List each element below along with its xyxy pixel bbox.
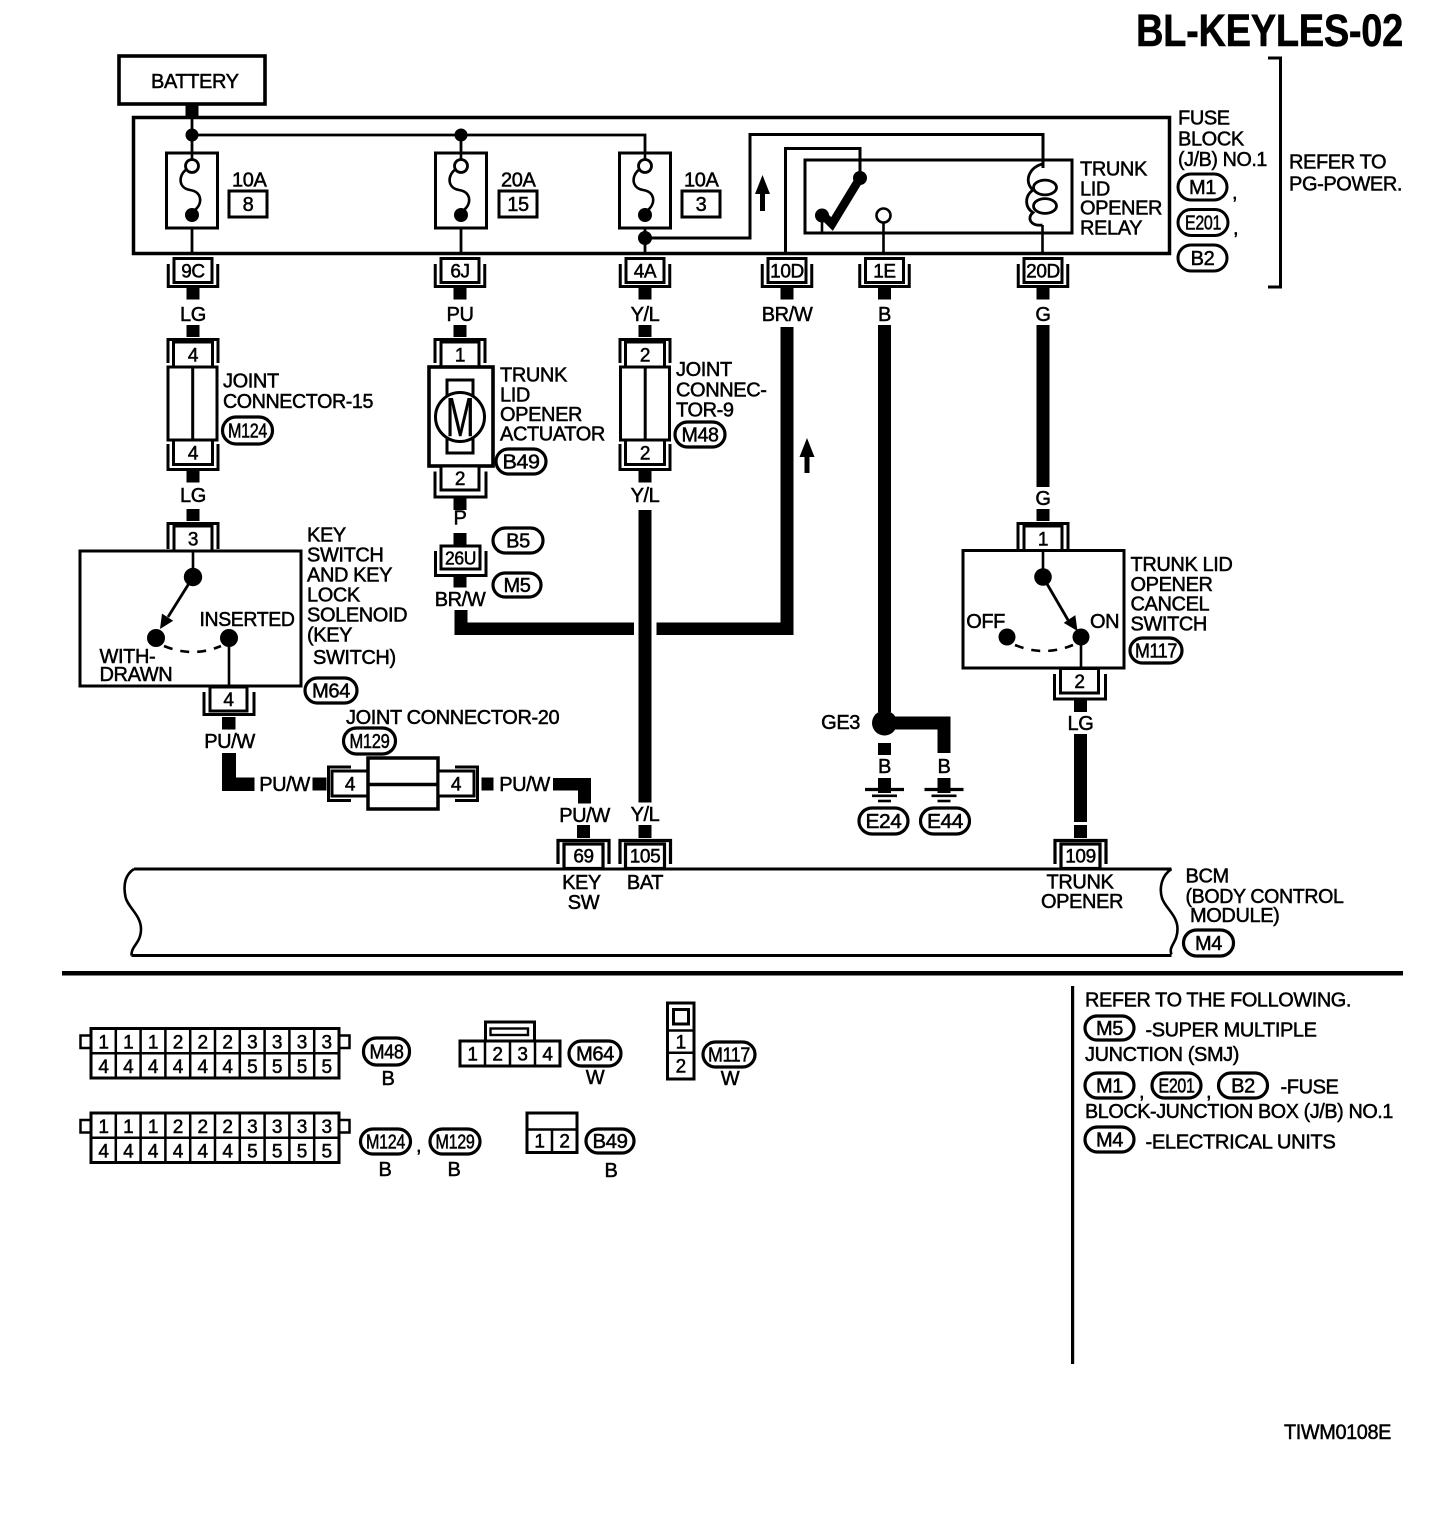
wire stub below 9C bbox=[187, 288, 200, 300]
svg-text:10A: 10A bbox=[232, 170, 267, 192]
connector M4 oval bbox=[1184, 930, 1234, 956]
wire dashed segment below GE3 bbox=[878, 743, 891, 755]
connector 109 TRUNK OPENER on BCM bbox=[1055, 841, 1106, 869]
svg-text:M124: M124 bbox=[366, 1132, 405, 1154]
svg-text:BR/W: BR/W bbox=[762, 304, 813, 326]
connector M1 oval bbox=[1178, 174, 1237, 204]
svg-text:ACTUATOR: ACTUATOR bbox=[500, 424, 605, 446]
svg-text:1: 1 bbox=[676, 1033, 686, 1054]
connector M117 oval bbox=[1130, 638, 1182, 663]
relay switch pivot node bbox=[815, 209, 829, 223]
wire stub above BCM pin 69 bbox=[577, 825, 590, 838]
key switch WITHDRAWN contact bbox=[147, 629, 165, 647]
wire stub below 10D bbox=[781, 288, 794, 300]
svg-text:KEY: KEY bbox=[562, 872, 601, 894]
svg-text:4: 4 bbox=[188, 444, 199, 465]
connector pin 2 of actuator bbox=[435, 466, 486, 497]
wire PU/W elbow to BCM 69 bbox=[553, 778, 591, 804]
separator line bbox=[62, 971, 1403, 976]
svg-text:CANCEL: CANCEL bbox=[1131, 594, 1210, 616]
joint connector-9 (M48) bbox=[620, 340, 670, 470]
connector M5 oval bbox=[1085, 1016, 1134, 1040]
svg-text:8: 8 bbox=[243, 194, 254, 216]
connector B49 oval (legend) bbox=[586, 1129, 634, 1153]
connector E24 oval bbox=[859, 808, 908, 834]
svg-text:FUSE: FUSE bbox=[1178, 108, 1230, 130]
svg-text:E201: E201 bbox=[1185, 213, 1221, 235]
svg-text:SWITCH: SWITCH bbox=[1131, 614, 1207, 636]
svg-text:20D: 20D bbox=[1026, 262, 1060, 283]
wire BR/W vertical from 10D bbox=[781, 327, 794, 635]
joint connector-15 (M124) bbox=[168, 340, 218, 470]
svg-text:W: W bbox=[586, 1067, 605, 1089]
label refer to pg-power bbox=[1289, 152, 1402, 196]
svg-text:TRUNK: TRUNK bbox=[500, 365, 568, 387]
svg-text:(KEY: (KEY bbox=[307, 625, 352, 647]
wire stub below 4A bbox=[639, 288, 652, 300]
wire B from 1E to ground GE3 bbox=[878, 325, 891, 712]
svg-text:BLOCK-JUNCTION BOX (J/B) NO.1: BLOCK-JUNCTION BOX (J/B) NO.1 bbox=[1085, 1101, 1393, 1123]
svg-text:Y/L: Y/L bbox=[631, 304, 660, 326]
wire bus to fuse 2 bbox=[460, 135, 463, 153]
connector 20D on fuse block bbox=[1018, 259, 1068, 287]
svg-text:OPENER: OPENER bbox=[1080, 198, 1162, 220]
svg-text:3: 3 bbox=[696, 194, 707, 216]
connector E44 oval bbox=[921, 808, 970, 834]
svg-text:M5: M5 bbox=[504, 575, 531, 597]
svg-text:SWITCH): SWITCH) bbox=[313, 647, 396, 669]
svg-text:JUNCTION (SMJ): JUNCTION (SMJ) bbox=[1085, 1044, 1239, 1066]
connector pin diagram M64 (4 pin) bbox=[460, 1022, 560, 1066]
key switch dashed arc bbox=[164, 646, 221, 652]
wire stub above ground E44 bbox=[938, 778, 951, 793]
svg-text:TOR-9: TOR-9 bbox=[676, 400, 734, 422]
motor M circle bbox=[436, 386, 485, 448]
wire stub below joint connector-15 bbox=[187, 471, 200, 483]
cancel switch dashed arc bbox=[1015, 645, 1073, 651]
svg-text:E24: E24 bbox=[866, 811, 902, 833]
joint connector-20 (M129) bbox=[329, 758, 478, 809]
label key switch and key lock solenoid bbox=[307, 525, 407, 670]
svg-text:10A: 10A bbox=[684, 170, 719, 192]
svg-text:1: 1 bbox=[455, 346, 465, 367]
wire stub above BCM pin 109 bbox=[1074, 825, 1087, 838]
arrow up near fuse 3 bbox=[755, 175, 770, 211]
label trunk lid opener cancel switch bbox=[1131, 554, 1233, 636]
svg-text:RELAY: RELAY bbox=[1080, 218, 1142, 240]
key switch and key lock solenoid box M64 bbox=[80, 551, 301, 686]
connector 26U SMJ bbox=[436, 546, 487, 576]
wire stub below 26U bbox=[454, 576, 467, 588]
wire G from 20D to cancel switch bbox=[1037, 325, 1050, 487]
connector M129 oval bbox=[344, 728, 396, 754]
svg-text:JOINT: JOINT bbox=[223, 371, 279, 393]
connector pin diagram B49 (2 pin) bbox=[527, 1113, 577, 1153]
svg-text:,: , bbox=[1139, 1081, 1144, 1103]
connector M64 oval bbox=[305, 678, 357, 703]
connector pin diagram M48 (20 pin) bbox=[81, 1029, 350, 1079]
connector B2 oval bbox=[1178, 245, 1227, 271]
label trunk lid opener actuator bbox=[500, 365, 605, 446]
svg-text:LG: LG bbox=[1068, 713, 1094, 735]
wire stub above joint connector-9 bbox=[639, 325, 652, 337]
cancel switch OFF contact bbox=[999, 629, 1016, 646]
svg-text:6J: 6J bbox=[450, 262, 469, 283]
connector pin 4 of key switch bbox=[204, 687, 254, 715]
fuse 10A #8 bbox=[167, 153, 218, 228]
svg-text:B5: B5 bbox=[506, 531, 530, 553]
svg-text:9C: 9C bbox=[181, 262, 205, 283]
bracket refer to pg-power bbox=[1268, 58, 1281, 287]
connector M48 oval (legend) bbox=[364, 1038, 410, 1065]
svg-text:M48: M48 bbox=[370, 1042, 404, 1064]
wire relay coil to 20D bbox=[1041, 225, 1044, 252]
relay switch arm bbox=[821, 178, 861, 224]
wire stub above 26U bbox=[454, 533, 467, 546]
svg-text:M64: M64 bbox=[312, 681, 350, 703]
label 10A / 8 for fuse 1 bbox=[229, 170, 267, 218]
label trunk lid opener relay bbox=[1080, 159, 1162, 240]
wire stub below key switch pin 4 bbox=[222, 717, 236, 730]
svg-text:M129: M129 bbox=[350, 731, 390, 753]
wire stub above actuator pin 1 bbox=[454, 325, 467, 337]
label TRUNK OPENER bbox=[1041, 872, 1123, 914]
wire cancel switch input bbox=[1042, 551, 1045, 577]
svg-text:15: 15 bbox=[507, 194, 529, 216]
svg-text:P: P bbox=[454, 508, 467, 530]
connector 4A on fuse block bbox=[620, 259, 670, 287]
connector M124 oval (legend) bbox=[361, 1129, 422, 1157]
svg-text:E44: E44 bbox=[927, 811, 963, 833]
connector 6J on fuse block bbox=[435, 259, 485, 287]
connector 10D on fuse block bbox=[762, 259, 812, 287]
svg-text:BATTERY: BATTERY bbox=[151, 71, 239, 93]
cancel switch common node bbox=[1034, 568, 1052, 586]
svg-text:M117: M117 bbox=[1135, 641, 1177, 663]
wire 10D to relay switch bbox=[786, 149, 861, 253]
svg-text:PG-POWER.: PG-POWER. bbox=[1289, 174, 1402, 196]
svg-text:2: 2 bbox=[640, 346, 650, 367]
vertical divider line bottom right column bbox=[1071, 986, 1074, 1364]
svg-text:B: B bbox=[605, 1160, 618, 1182]
connector pin 1 of cancel switch bbox=[1018, 524, 1068, 552]
wire stub below actuator pin 2 bbox=[454, 498, 467, 510]
node GE3 ground junction bbox=[872, 711, 897, 736]
svg-text:4: 4 bbox=[542, 1045, 553, 1066]
wire stub below 20D bbox=[1037, 288, 1050, 300]
svg-text:PU/W: PU/W bbox=[204, 731, 255, 753]
fuse 20A #15 bbox=[436, 153, 487, 228]
wire stub below 1E bbox=[878, 288, 891, 300]
svg-text:CONNEC-: CONNEC- bbox=[676, 380, 767, 402]
svg-text:INSERTED: INSERTED bbox=[200, 609, 295, 631]
svg-text:G: G bbox=[1035, 304, 1050, 326]
svg-text:Y/L: Y/L bbox=[631, 485, 660, 507]
wire stub out of joint connector-20 bbox=[482, 778, 494, 791]
svg-text:M64: M64 bbox=[576, 1044, 614, 1066]
relay switch moving contact node bbox=[853, 171, 867, 185]
svg-text:BAT: BAT bbox=[627, 872, 663, 894]
connector M4 oval (legend) bbox=[1085, 1127, 1134, 1152]
svg-text:B: B bbox=[448, 1159, 461, 1181]
svg-text:20A: 20A bbox=[501, 170, 536, 192]
svg-text:-FUSE: -FUSE bbox=[1281, 1077, 1339, 1099]
svg-text:69: 69 bbox=[573, 847, 593, 868]
svg-text:105: 105 bbox=[630, 847, 661, 868]
wire PU/W elbow from key switch bbox=[222, 753, 255, 791]
svg-text:REFER TO THE FOLLOWING.: REFER TO THE FOLLOWING. bbox=[1085, 990, 1351, 1012]
svg-text:SWITCH: SWITCH bbox=[307, 545, 383, 567]
svg-text:BL-KEYLES-02: BL-KEYLES-02 bbox=[1136, 5, 1403, 56]
connector M1 oval (legend) bbox=[1085, 1073, 1144, 1103]
svg-text:M4: M4 bbox=[1096, 1130, 1123, 1152]
svg-text:M117: M117 bbox=[708, 1045, 750, 1067]
svg-text:109: 109 bbox=[1065, 847, 1096, 868]
svg-text:CONNECTOR-15: CONNECTOR-15 bbox=[223, 391, 373, 413]
key switch arm with arrow bbox=[160, 577, 193, 629]
connector M5 oval bbox=[493, 573, 541, 597]
battery bbox=[119, 56, 265, 104]
svg-text:M5: M5 bbox=[1096, 1018, 1123, 1040]
svg-text:M48: M48 bbox=[682, 425, 719, 447]
wire GE3 right branch bbox=[894, 717, 951, 754]
svg-text:4: 4 bbox=[345, 775, 356, 796]
node fuse 2 junction bbox=[455, 129, 468, 142]
arrow up on BR/W wire bbox=[800, 438, 815, 473]
svg-text:W: W bbox=[721, 1068, 740, 1090]
svg-text:TRUNK: TRUNK bbox=[1080, 159, 1148, 181]
svg-text:DRAWN: DRAWN bbox=[100, 664, 173, 686]
svg-text:1: 1 bbox=[467, 1045, 477, 1066]
wire Y/L vertical to BCM 105 bbox=[639, 510, 652, 803]
svg-text:26U: 26U bbox=[445, 549, 476, 569]
svg-text:BCM: BCM bbox=[1186, 866, 1229, 888]
svg-text:TRUNK LID: TRUNK LID bbox=[1131, 554, 1233, 576]
relay fixed contact bbox=[877, 209, 891, 223]
svg-text:AND KEY: AND KEY bbox=[307, 565, 392, 587]
connector M64 oval (legend) bbox=[569, 1041, 621, 1066]
wire stub above BCM pin 105 bbox=[639, 825, 652, 838]
svg-text:B: B bbox=[938, 756, 951, 778]
svg-text:2: 2 bbox=[1074, 672, 1084, 693]
connector B49 oval bbox=[496, 449, 546, 474]
svg-text:,: , bbox=[1232, 182, 1237, 204]
svg-text:GE3: GE3 bbox=[821, 712, 860, 734]
connector pin 1 of actuator bbox=[435, 340, 485, 368]
svg-text:Y/L: Y/L bbox=[631, 804, 660, 826]
svg-text:E201: E201 bbox=[1159, 1076, 1195, 1098]
svg-text:4: 4 bbox=[188, 346, 199, 367]
key switch common node bbox=[184, 568, 202, 586]
label JOINT CONNECTOR-15 bbox=[223, 371, 373, 414]
svg-text:M4: M4 bbox=[1195, 933, 1222, 955]
svg-text:-SUPER MULTIPLE: -SUPER MULTIPLE bbox=[1146, 1020, 1317, 1042]
motor terminal rectangle bbox=[447, 380, 473, 453]
svg-text:MODULE): MODULE) bbox=[1190, 905, 1279, 927]
svg-text:2: 2 bbox=[559, 1132, 569, 1153]
svg-text:SW: SW bbox=[568, 892, 600, 914]
ground symbol E24 bbox=[865, 790, 904, 802]
connector pin diagram M117 (2 pin) bbox=[668, 1003, 695, 1079]
svg-text:4: 4 bbox=[451, 775, 462, 796]
svg-text:JOINT: JOINT bbox=[676, 359, 732, 381]
svg-text:BLOCK: BLOCK bbox=[1178, 129, 1245, 151]
svg-text:3: 3 bbox=[188, 530, 198, 551]
svg-text:M: M bbox=[446, 386, 475, 448]
connector 69 KEY SW on BCM bbox=[558, 841, 609, 869]
svg-text:2: 2 bbox=[492, 1045, 502, 1066]
svg-text:LG: LG bbox=[180, 304, 206, 326]
wire key switch input bbox=[192, 551, 195, 574]
svg-text:BR/W: BR/W bbox=[435, 589, 486, 611]
connector B2 oval (legend) bbox=[1219, 1073, 1268, 1098]
label 20A / 15 for fuse 2 bbox=[499, 170, 537, 218]
connector 105 BAT on BCM bbox=[620, 841, 671, 869]
wire fuse 3 junction to relay coil bbox=[645, 135, 1043, 239]
wire stub above joint connector-15 bbox=[187, 325, 200, 337]
svg-text:2: 2 bbox=[455, 469, 465, 490]
svg-text:,: , bbox=[416, 1135, 421, 1157]
cancel switch arm with arrow bbox=[1043, 577, 1078, 631]
cancel switch ON contact bbox=[1073, 629, 1090, 646]
svg-text:M124: M124 bbox=[228, 421, 267, 443]
wire fuse 1 to 9C bbox=[191, 228, 194, 252]
svg-text:4: 4 bbox=[223, 690, 234, 711]
label fuse block (J/B) no.1 bbox=[1178, 108, 1267, 172]
connector B5 oval bbox=[493, 528, 543, 553]
svg-text:SOLENOID: SOLENOID bbox=[307, 605, 407, 627]
wire stub above cancel switch pin 1 bbox=[1037, 509, 1050, 521]
wire stub below 6J bbox=[454, 288, 467, 300]
connector 1E on fuse block bbox=[860, 259, 910, 287]
wire ON contact to pin 2 bbox=[1080, 644, 1083, 668]
svg-text:B2: B2 bbox=[1231, 1076, 1255, 1098]
svg-text:JOINT CONNECTOR-20: JOINT CONNECTOR-20 bbox=[346, 707, 559, 729]
wire fuse 2 to 6J bbox=[460, 228, 463, 252]
wire fuse 3 to 4A bbox=[644, 228, 647, 252]
wire stub into joint connector-20 bbox=[313, 778, 327, 791]
svg-text:B2: B2 bbox=[1191, 248, 1215, 270]
connector pin 2 of cancel switch bbox=[1055, 669, 1106, 700]
svg-text:(J/B) NO.1: (J/B) NO.1 bbox=[1178, 149, 1267, 171]
svg-text:PU/W: PU/W bbox=[499, 774, 550, 796]
connector M129 oval (legend) bbox=[430, 1129, 480, 1154]
wire relay fixed contact to 1E bbox=[882, 223, 885, 253]
trunk lid opener relay box bbox=[805, 160, 1072, 233]
svg-text:B: B bbox=[878, 756, 891, 778]
svg-text:2: 2 bbox=[640, 444, 650, 465]
label BCM (BODY CONTROL MODULE) bbox=[1186, 866, 1344, 928]
svg-text:10D: 10D bbox=[770, 262, 804, 283]
svg-text:LG: LG bbox=[180, 485, 206, 507]
wire battery feed to fuse 1 bbox=[191, 118, 194, 153]
wire battery to fuse block (stub) bbox=[186, 103, 199, 118]
svg-text:,: , bbox=[1233, 218, 1238, 240]
svg-text:ON: ON bbox=[1090, 611, 1119, 633]
wire bus to fuse 3 bbox=[192, 135, 645, 153]
wire stub above key switch pin 3 bbox=[187, 509, 200, 521]
svg-text:B: B bbox=[379, 1159, 392, 1181]
key switch INSERTED contact bbox=[220, 629, 238, 647]
svg-text:B49: B49 bbox=[503, 452, 540, 474]
ground symbol E44 bbox=[925, 790, 964, 802]
trunk lid opener cancel switch box M117 bbox=[963, 551, 1124, 669]
svg-text:OFF: OFF bbox=[966, 611, 1005, 633]
relay coil bbox=[1027, 164, 1057, 225]
svg-text:B: B bbox=[382, 1068, 395, 1090]
connector E201 oval (legend) bbox=[1152, 1073, 1211, 1103]
svg-text:B: B bbox=[878, 304, 891, 326]
svg-text:OPENER: OPENER bbox=[1041, 891, 1123, 913]
svg-text:B49: B49 bbox=[593, 1131, 628, 1153]
label WITH-DRAWN bbox=[100, 646, 173, 686]
svg-text:,: , bbox=[1206, 1081, 1211, 1103]
svg-text:2: 2 bbox=[676, 1057, 686, 1078]
wire stub below joint connector-9 bbox=[639, 471, 652, 483]
svg-text:LOCK: LOCK bbox=[307, 585, 361, 607]
connector pin diagram M124/M129 (20 pin) bbox=[81, 1113, 350, 1163]
fuse 10A #3 bbox=[620, 153, 671, 228]
svg-text:PU/W: PU/W bbox=[259, 774, 310, 796]
svg-text:1E: 1E bbox=[873, 262, 895, 283]
wire BR/W elbow from 26U bbox=[455, 610, 635, 635]
fuse block (J/B) no.1 box bbox=[134, 118, 1170, 254]
wire LG to BCM 109 bbox=[1074, 734, 1087, 822]
wire relay pivot to box edge bbox=[821, 219, 824, 233]
connector M124 oval bbox=[223, 417, 273, 444]
connector M117 oval (legend) bbox=[703, 1042, 755, 1067]
connector pin 3 of key switch bbox=[168, 524, 218, 552]
svg-text:M129: M129 bbox=[436, 1132, 475, 1154]
node battery junction bbox=[186, 129, 199, 142]
trunk lid opener actuator box B49 bbox=[429, 367, 493, 466]
label JOINT CONNEC-TOR-9 bbox=[676, 359, 767, 422]
svg-text:REFER TO: REFER TO bbox=[1289, 152, 1386, 174]
svg-text:M1: M1 bbox=[1096, 1076, 1123, 1098]
svg-text:4A: 4A bbox=[634, 262, 657, 283]
wire stub below cancel switch pin 2 bbox=[1074, 700, 1087, 712]
svg-text:M1: M1 bbox=[1189, 177, 1216, 199]
svg-text:PU/W: PU/W bbox=[559, 805, 610, 827]
svg-text:1: 1 bbox=[534, 1132, 544, 1153]
wire stub above ground E24 bbox=[878, 778, 891, 793]
connector E201 oval bbox=[1178, 210, 1238, 240]
svg-text:1: 1 bbox=[1038, 530, 1048, 551]
svg-text:TIWM0108E: TIWM0108E bbox=[1284, 1421, 1391, 1444]
label 10A / 3 for fuse 3 bbox=[682, 170, 720, 218]
BCM body control module box bbox=[125, 869, 1178, 956]
connector M48 oval bbox=[675, 422, 725, 447]
svg-text:3: 3 bbox=[517, 1045, 527, 1066]
label KEY SW bbox=[562, 872, 601, 914]
wire inserted contact to pin 4 bbox=[228, 645, 231, 686]
wire BR/W horizontal right segment bbox=[657, 623, 794, 636]
node fuse 3 branch junction bbox=[638, 231, 652, 245]
svg-text:-ELECTRICAL UNITS: -ELECTRICAL UNITS bbox=[1146, 1132, 1336, 1154]
svg-text:PU: PU bbox=[447, 304, 474, 326]
svg-text:G: G bbox=[1035, 488, 1050, 510]
connector 9C on fuse block bbox=[168, 259, 218, 287]
svg-text:KEY: KEY bbox=[307, 525, 346, 547]
